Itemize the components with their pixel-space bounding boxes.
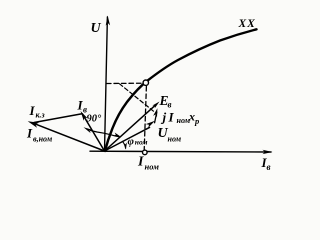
svg-text:в: в bbox=[267, 162, 271, 172]
arc arrowhead left bbox=[84, 127, 93, 133]
node circle on axis bbox=[143, 150, 148, 155]
svg-text:U: U bbox=[91, 21, 102, 36]
svg-text:ном: ном bbox=[145, 162, 160, 172]
vector U_nom bbox=[105, 127, 150, 151]
vector I_k.z (short-circuit) from I_v tip bbox=[34, 114, 82, 123]
vector I_v,nom from origin bbox=[35, 124, 105, 151]
svg-text:I: I bbox=[137, 155, 144, 170]
arc arrowhead right (onto E_v line) bbox=[113, 133, 121, 137]
svg-text:I: I bbox=[168, 109, 175, 124]
svg-text:ном: ном bbox=[135, 138, 148, 147]
shared arrowhead bbox=[28, 121, 39, 127]
Iv axis arrowhead bbox=[263, 150, 273, 154]
dashed horizontal construction line bbox=[107, 82, 144, 84]
phi arc arrowhead (down to axis) bbox=[124, 143, 127, 150]
U axis bbox=[105, 17, 108, 151]
U axis arrowhead bbox=[106, 16, 110, 26]
svg-text:ном: ном bbox=[168, 135, 182, 144]
Iv axis (horizontal) bbox=[90, 150, 271, 153]
svg-text:90°: 90° bbox=[87, 114, 103, 125]
dashed vertical construction line bbox=[144, 87, 146, 150]
svg-text:I: I bbox=[29, 103, 36, 118]
svg-text:XX: XX bbox=[238, 18, 256, 30]
svg-text:φ: φ bbox=[128, 135, 135, 147]
svg-text:в: в bbox=[168, 100, 172, 110]
svg-text:x: x bbox=[188, 110, 195, 124]
XX no-load curve bbox=[105, 29, 257, 151]
vector I_v bbox=[82, 114, 104, 151]
90 deg arc between I_v and U_nom bbox=[91, 131, 119, 137]
node circle on curve bbox=[143, 80, 148, 85]
dashed slanted construction line to E_v tip bbox=[120, 84, 155, 112]
svg-text:к.з: к.з bbox=[36, 111, 45, 120]
vector jI_nom x_p (from U tip to E tip) bbox=[155, 112, 157, 123]
svg-text:в,ном: в,ном bbox=[33, 135, 53, 144]
svg-text:p: p bbox=[194, 116, 199, 126]
vector E_v bbox=[105, 105, 156, 151]
small phi_nom angle arc U line to axis bbox=[123, 141, 126, 148]
svg-text:I: I bbox=[26, 126, 33, 141]
